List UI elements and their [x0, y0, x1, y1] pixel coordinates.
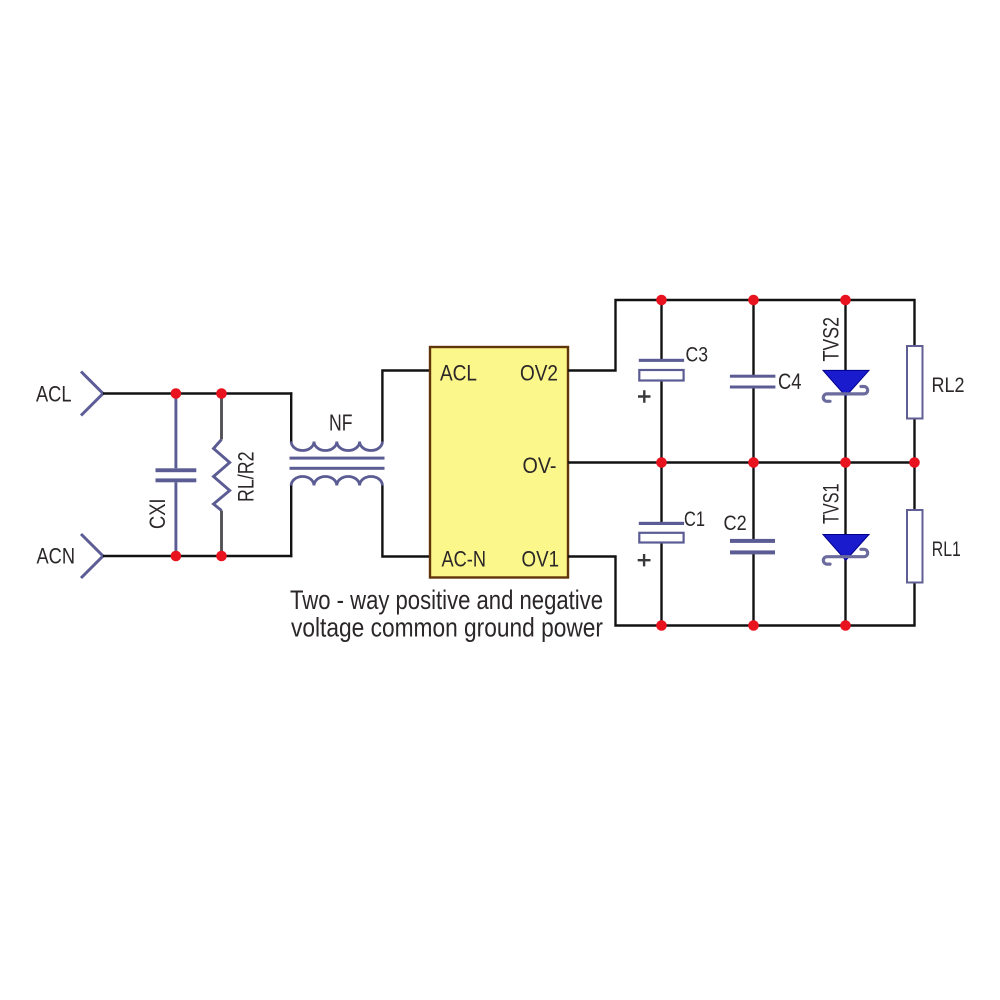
wire ACL corner down to transformer [290, 392, 292, 441]
diode TVS1 leads [844, 463, 846, 626]
wire ACN corner up to transformer [290, 486, 292, 558]
svg-text:C4: C4 [778, 369, 802, 394]
wire transformer to box bottom [382, 486, 430, 557]
svg-text:RL2: RL2 [932, 374, 965, 397]
diode TVS2 [819, 317, 870, 401]
svg-text:ACL: ACL [36, 381, 72, 406]
wire OV2 to top rail [568, 299, 915, 372]
capacitor C2 leads [752, 463, 754, 626]
svg-text:C1: C1 [684, 508, 705, 531]
diode TVS2 leads [844, 300, 846, 463]
svg-text:RL1: RL1 [932, 538, 961, 561]
svg-text:C3: C3 [686, 344, 709, 367]
svg-text:OV1: OV1 [522, 547, 560, 572]
resistor RL2 [907, 346, 965, 419]
svg-text:TVS1: TVS1 [819, 484, 844, 525]
wire RL2 bottom lead [913, 418, 915, 463]
capacitor C4 [730, 369, 802, 394]
svg-text:ACL: ACL [440, 361, 477, 386]
svg-text:NF: NF [329, 410, 353, 436]
junction dots top rail [656, 295, 667, 306]
transformer NF secondary winding [291, 476, 382, 485]
svg-text:RL/R2: RL/R2 [233, 452, 258, 503]
svg-text:TVS2: TVS2 [819, 317, 844, 362]
capacitor C1 leads [660, 463, 662, 626]
resistor RL/R2 [214, 394, 259, 557]
svg-text:CXI: CXI [145, 499, 170, 530]
connector arrow ACN [81, 534, 103, 578]
wire OV- middle rail [568, 461, 915, 463]
junction dots ACL line [171, 388, 182, 399]
capacitor C4 leads [752, 300, 754, 463]
wire ACL top horizontal [103, 392, 292, 394]
junction dots bottom rail [656, 620, 667, 631]
wire OV1 to bottom rail [568, 555, 915, 626]
capacitor C1 [638, 508, 705, 566]
svg-text:ACN: ACN [37, 543, 76, 568]
capacitor C3 leads [660, 300, 662, 463]
svg-text:Two - way positive and negativ: Two - way positive and negative [290, 585, 603, 615]
svg-text:OV-: OV- [523, 453, 557, 478]
svg-text:voltage common ground power: voltage common ground power [291, 613, 603, 643]
wire ACN bottom horizontal [103, 555, 292, 557]
junction dots middle rail [656, 457, 667, 468]
wire RL1 top lead [913, 463, 915, 511]
capacitor CXI [145, 394, 197, 557]
svg-text:C2: C2 [724, 512, 747, 535]
capacitor C2 [724, 512, 776, 555]
module U1 power supply box [430, 347, 568, 578]
wire transformer to box top [382, 371, 430, 442]
svg-text:OV2: OV2 [520, 361, 558, 386]
transformer NF core [290, 457, 385, 460]
junction dots ACN line [171, 551, 182, 562]
resistor RL1 [907, 510, 961, 583]
svg-text:AC-N: AC-N [442, 547, 487, 572]
capacitor C3 [638, 344, 708, 403]
connector arrow ACL [81, 372, 103, 416]
transformer NF primary winding [291, 442, 382, 451]
diode TVS1 [819, 484, 870, 565]
